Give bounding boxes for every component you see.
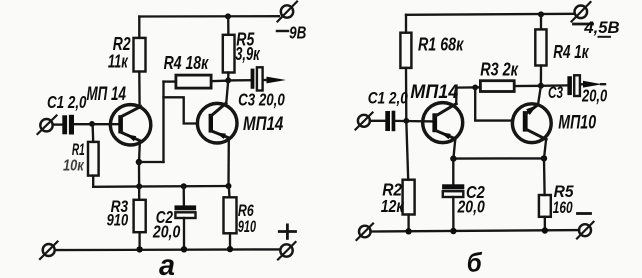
node C2 column — [181, 183, 187, 189]
svg-text:11к: 11к — [108, 52, 128, 72]
node rail C2b — [450, 228, 456, 234]
svg-text:12к: 12к — [381, 196, 405, 216]
wire branch to T2 base — [164, 97, 198, 123]
svg-text:С3: С3 — [548, 84, 563, 102]
node rail R2b — [405, 228, 411, 234]
resistor R3 — [138, 162, 141, 200]
transistor T2b MP10 — [512, 104, 551, 143]
terminal bottom-right b — [579, 224, 591, 236]
node base T1 / R1 — [89, 121, 95, 127]
terminal -4.5V — [575, 6, 588, 19]
transistor T2 MP14 — [197, 103, 237, 143]
svg-text:20,0: 20,0 — [152, 222, 180, 242]
terminal bottom-left b — [359, 226, 371, 238]
node R5b — [541, 155, 547, 161]
node T1 emitter junction — [136, 159, 142, 165]
svg-text:МП10: МП10 — [558, 113, 596, 134]
capacitor C2b — [452, 159, 454, 185]
svg-text:3,9к: 3,9к — [235, 44, 260, 64]
wire T2 collector up — [226, 81, 228, 103]
capacitor C3 — [228, 79, 251, 82]
svg-text:С1 2,0: С1 2,0 — [47, 92, 87, 112]
label -9V — [277, 30, 288, 32]
capacitor C1b — [385, 111, 390, 131]
node R6 column — [226, 183, 232, 189]
svg-text:МП14: МП14 — [410, 81, 458, 103]
wire C1 to base — [74, 123, 119, 125]
node R3 column — [136, 183, 142, 189]
svg-text:9В: 9В — [289, 22, 306, 42]
wire C1b to base — [395, 120, 432, 123]
node top rail / R4 junction — [538, 11, 544, 17]
wire R1 bottom node line — [93, 185, 228, 188]
wire emitter to feedback column — [139, 161, 164, 163]
terminal bottom-left a — [43, 244, 55, 256]
svg-text:С1 2,0: С1 2,0 — [368, 89, 409, 108]
resistor R5b — [543, 158, 546, 195]
wire emitter node line b — [453, 157, 544, 160]
svg-text:910: 910 — [107, 211, 129, 230]
svg-text:R1 68к: R1 68к — [418, 34, 464, 54]
wire T1b collector up to R3 row — [456, 87, 480, 103]
node R4/R3/C3 junction — [538, 83, 544, 89]
wire input — [53, 123, 63, 125]
wire input b — [370, 120, 386, 122]
node rail R5b — [542, 227, 548, 233]
svg-text:20,0: 20,0 — [581, 86, 607, 106]
svg-text:4,5В: 4,5В — [583, 18, 619, 37]
capacitor C2 — [183, 186, 186, 205]
resistor R3b — [480, 81, 514, 92]
svg-text:20,0: 20,0 — [457, 197, 485, 217]
node rail R3 — [136, 246, 142, 252]
transistor T1b MP14 — [423, 103, 463, 143]
node R3 left junction — [472, 85, 478, 91]
svg-text:R4 1к: R4 1к — [553, 42, 589, 62]
wire T2 emitter down — [227, 138, 230, 186]
node top rail / R5 junction — [225, 13, 231, 19]
resistor R6 — [228, 186, 231, 197]
wire bottom rail b — [371, 230, 580, 231]
capacitor C3b — [541, 84, 568, 87]
svg-text:R4 18к: R4 18к — [164, 53, 209, 73]
resistor R5 — [227, 16, 230, 34]
resistor R1b — [405, 15, 407, 33]
resistor R4b — [540, 14, 542, 29]
wire bottom rail a — [55, 248, 280, 251]
wire T2b emitter up — [538, 86, 541, 105]
svg-text:R3 2к: R3 2к — [480, 60, 518, 80]
svg-text:910: 910 — [238, 218, 257, 236]
terminal input a — [40, 119, 52, 131]
node R5/R4/C3 junction — [225, 77, 231, 83]
resistor R2 — [138, 17, 140, 38]
svg-text:МП 14: МП 14 — [87, 83, 127, 105]
wire top rail b — [406, 14, 575, 15]
svg-text:б: б — [467, 248, 483, 278]
wire T1b emitter down — [453, 139, 455, 159]
wire drop to T2b base — [475, 87, 513, 120]
svg-text:С3 20,0: С3 20,0 — [238, 90, 285, 110]
wire feedback column vertical — [162, 82, 164, 162]
wire T2b collector down — [544, 139, 546, 158]
node rail R6 — [227, 246, 233, 252]
node rail C2 — [181, 246, 187, 252]
label minus — [578, 212, 591, 215]
svg-text:160: 160 — [553, 198, 573, 217]
wire T1 emitter down — [138, 141, 141, 162]
svg-text:а: а — [159, 249, 175, 278]
svg-text:R1: R1 — [72, 141, 85, 159]
terminal -9V — [281, 5, 293, 17]
label plus — [279, 230, 295, 233]
node base T1b junction — [403, 118, 409, 124]
resistor R1 — [91, 124, 94, 142]
resistor R4 — [176, 75, 211, 88]
node C2b — [450, 155, 456, 161]
wire top rail a — [139, 15, 279, 18]
terminal input b — [358, 115, 370, 127]
svg-text:МП14: МП14 — [243, 114, 284, 135]
transistor T1 MP14 — [110, 105, 150, 145]
svg-text:10к: 10к — [63, 158, 85, 175]
resistor R2b — [406, 121, 408, 180]
capacitor C1 — [62, 115, 67, 134]
label -4,5V — [574, 23, 593, 26]
terminal bottom-right a — [280, 244, 292, 256]
